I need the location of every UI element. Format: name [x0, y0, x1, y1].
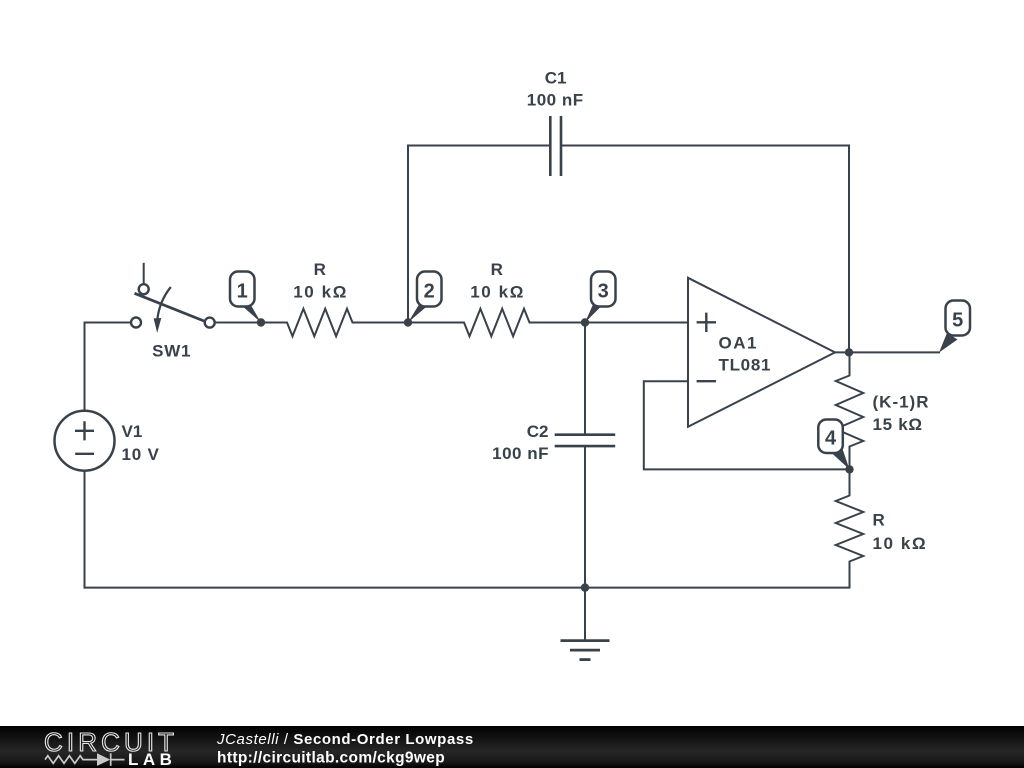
- svg-text:V1: V1: [122, 422, 143, 441]
- capacitor C1: [527, 69, 584, 177]
- junction dot node 3: [581, 318, 589, 326]
- svg-text:10 kΩ: 10 kΩ: [470, 283, 525, 302]
- wire bottom bus: [85, 587, 850, 589]
- junction dot node 2: [404, 318, 412, 326]
- svg-text:15 kΩ: 15 kΩ: [873, 415, 923, 434]
- svg-text:(K-1)R: (K-1)R: [873, 393, 930, 412]
- wire C1 right to output column: [561, 146, 849, 353]
- switch SW1: [131, 263, 215, 361]
- junction dot node 4: [845, 465, 853, 473]
- ground: [561, 641, 610, 660]
- node 4 label: [818, 420, 849, 470]
- svg-text:2: 2: [424, 281, 435, 303]
- wire left vertical to V1 top: [84, 323, 86, 411]
- resistor R3 10k (bottom): [836, 469, 927, 587]
- capacitor C2: [492, 422, 615, 463]
- svg-text:100 nF: 100 nF: [492, 444, 549, 463]
- footer logo symbol: [45, 753, 125, 766]
- node 5 label: [939, 301, 970, 353]
- wire switch to node 1: [215, 322, 261, 324]
- wire node 2 up to C1 left: [408, 146, 550, 323]
- wire C2 bottom to bus: [584, 446, 586, 587]
- wire left top horizontal to switch: [85, 322, 132, 324]
- svg-text:TL081: TL081: [719, 355, 772, 374]
- svg-text:SW1: SW1: [152, 341, 191, 360]
- wire node 3 to op-amp + input: [585, 322, 688, 324]
- svg-text:3: 3: [598, 281, 609, 303]
- svg-text:JCastelli / Second-Order Lowpa: JCastelli / Second-Order Lowpass: [216, 731, 474, 748]
- node 1 label: [230, 272, 261, 323]
- svg-text:10 kΩ: 10 kΩ: [293, 283, 348, 302]
- svg-text:R: R: [314, 260, 326, 279]
- svg-text:4: 4: [825, 428, 837, 450]
- svg-text:100 nF: 100 nF: [527, 91, 584, 110]
- wire V1 bottom to bottom bus: [84, 471, 86, 588]
- op-amp OA1 TL081: [688, 278, 835, 427]
- svg-text:1: 1: [237, 281, 248, 303]
- resistor (K-1)R 15k: [836, 352, 930, 469]
- svg-text:10 kΩ: 10 kΩ: [873, 534, 928, 553]
- svg-text:OA1: OA1: [719, 334, 758, 353]
- footer bar: [0, 726, 1024, 768]
- junction dot op-amp output: [845, 348, 853, 356]
- svg-text:5: 5: [952, 310, 963, 332]
- svg-text:C1: C1: [545, 69, 567, 88]
- wire op-amp - input feedback: [644, 381, 850, 469]
- wire ground stub: [584, 588, 586, 640]
- node 3 label: [585, 272, 616, 323]
- svg-text:10 V: 10 V: [122, 445, 160, 464]
- node 2 label: [408, 272, 442, 323]
- voltage source V1: [55, 411, 160, 471]
- svg-text:C2: C2: [527, 422, 549, 441]
- svg-text:R: R: [873, 511, 885, 530]
- junction dot node 1: [257, 318, 265, 326]
- resistor R1 10k (input): [261, 260, 408, 336]
- svg-text:http://circuitlab.com/ckg9wep: http://circuitlab.com/ckg9wep: [217, 750, 445, 767]
- wire op-amp output to node 5 pointer: [835, 351, 939, 353]
- svg-text:R: R: [491, 260, 503, 279]
- svg-text:LAB: LAB: [128, 750, 176, 768]
- resistor R2 10k (middle): [408, 260, 585, 336]
- junction dot ground bus: [581, 583, 589, 591]
- wire node 3 down to C2 top: [584, 323, 586, 435]
